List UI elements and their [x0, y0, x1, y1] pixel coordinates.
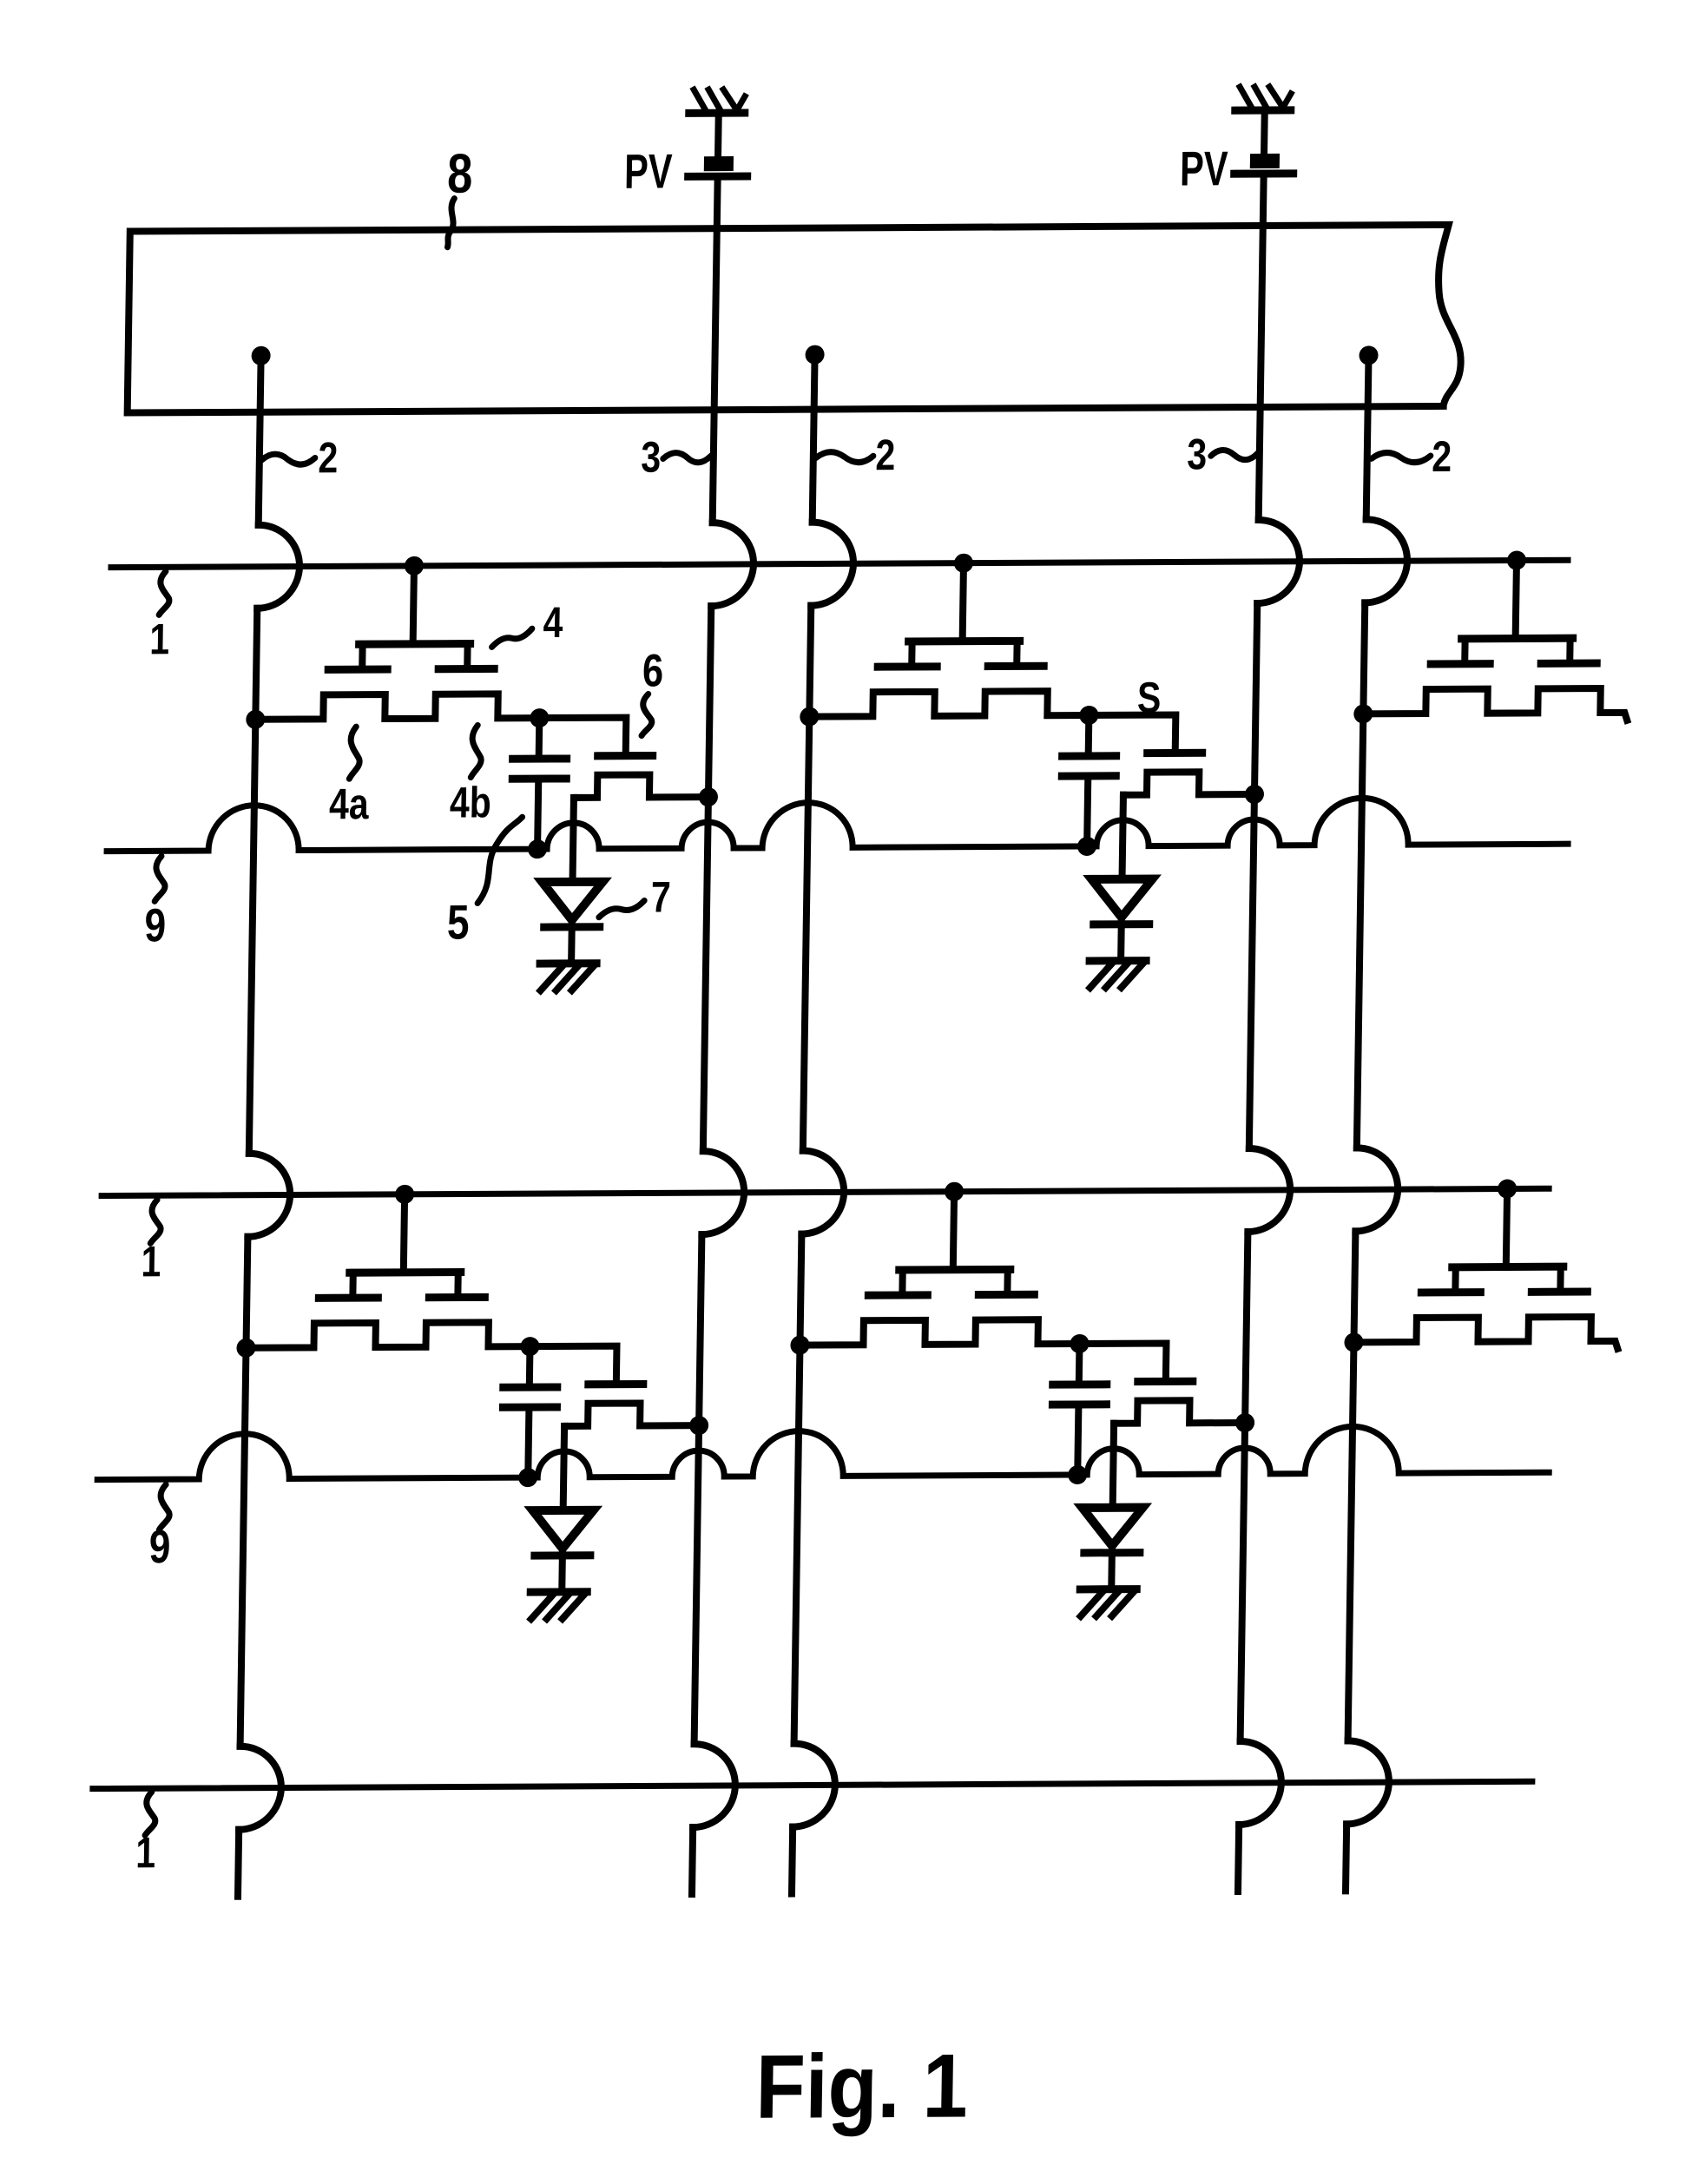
node: column 2 (right) tap inside bus 8 [1359, 345, 1378, 365]
svg-text:3: 3 [1187, 430, 1208, 478]
pixel cell D (row2,col2): wire: gate tap of transistor 4 [953, 1192, 954, 1268]
pixel cell C (row2,col1): node: capacitor 5 on row 9 [518, 1468, 537, 1487]
pixel cell C (row2,col1): wire: capacitor 5 to row 9 [528, 1407, 529, 1477]
crossover hop: column 2 (middle) over row 1 (first) [811, 522, 853, 605]
pixel cell B (row1,col2): wire: gate lead of transistor 6 [1089, 714, 1176, 750]
label 2 (right column) with squiggle [1371, 432, 1452, 481]
pixel cell edge (row1,right): wire: gate tap of transistor 4 [1516, 561, 1517, 637]
pixel cell C (row2,col1): photodiode 7 triangle [532, 1510, 594, 1549]
pixel cell D (row2,col2): node: transistor 6 on column 3 [1235, 1413, 1254, 1432]
pixel cell C (row2,col1): ground (below photodiode) [530, 1592, 587, 1619]
row line 9 (second, with crossover hops) [97, 1425, 1550, 1479]
row line 1 (second gate line) [102, 1188, 1549, 1195]
pixel cell A (row1,col1): photodiode 7 triangle [542, 882, 603, 920]
pixel cell D (row2,col2): capacitor 5 plates [1052, 1385, 1106, 1404]
pixel cell A (row1,col1): wire: gate tap of transistor 4 [413, 566, 414, 642]
pixel cell D (row2,col2): node: channel on column 2 [790, 1336, 809, 1355]
pixel cell edge (row1,right): transistor 4a/4b channel (staircase) [1363, 688, 1628, 722]
pixel cell C (row2,col1): capacitor 5 plates [503, 1387, 556, 1407]
pixel cell edge (row2,right): transistor 4b gate bar [1531, 1288, 1587, 1296]
crossover hop: column 3 (right) over row 1 (second) [1248, 1148, 1290, 1232]
pixel cell B (row1,col2): transistor 6 channel [1123, 772, 1254, 795]
svg-text:6: 6 [642, 645, 664, 696]
pixel cell C (row2,col1): photodiode 7 cathode bar [535, 1551, 590, 1559]
pixel cell edge (row1,right): node: channel on column 2 (right) [1353, 704, 1373, 723]
label 1 (second row) with squiggle [141, 1200, 161, 1286]
pixel cell A (row1,col1): node: channel on column 2 [246, 710, 265, 729]
svg-text:PV: PV [1180, 141, 1228, 196]
pixel cell C (row2,col1): wire: gate lead of transistor 6 [530, 1346, 617, 1382]
pixel cell B (row1,col2): capacitor 5 plates [1062, 756, 1116, 776]
crossover hop: column 2 (left) over row 1 (third) [239, 1747, 281, 1830]
pixel cell B (row1,col2): transistor 4a/4b channel (staircase) [805, 691, 1089, 717]
pixel cell C (row2,col1): node: channel on column 2 [236, 1339, 255, 1358]
pixel cell C (row2,col1): transistor 4a gate bar [319, 1294, 378, 1302]
column line 2 (middle video line) [792, 355, 815, 1894]
pixel cell A (row1,col1): wire: junction to capacitor 5 [536, 718, 543, 759]
pixel cell D (row2,col2): transistor 4 gate plate end ticks [902, 1269, 1007, 1295]
pixel cell D (row2,col2): transistor 4a gate bar [868, 1291, 927, 1299]
pixel cell C (row2,col1): transistor 4 top gate plate [350, 1268, 461, 1277]
pixel cell C (row2,col1): node: gate of transistor 4 on row 1 [395, 1185, 414, 1204]
crossover hop: column 3 (left) over row 1 (second) [701, 1151, 744, 1234]
node: column 2 (middle) tap inside bus 8 [805, 345, 824, 365]
svg-text:2: 2 [1432, 432, 1452, 481]
label 3 (right column) with squiggle [1187, 430, 1258, 478]
label 9 (first row) with squiggle [144, 856, 167, 951]
crossover hop: column 2 (left) over row 1 (second) [247, 1154, 290, 1237]
crossover hop: column 2 (right) over row 1 (second) [1355, 1148, 1398, 1231]
pixel cell B (row1,col2): transistor 4a gate bar [878, 662, 937, 670]
pixel cell A (row1,col1): node: channel / storage capacitor junction [530, 708, 549, 727]
crossover hop: column 3 (right) over row 1 (first) [1257, 520, 1300, 603]
pixel cell A (row1,col1): transistor 4 top gate plate [359, 640, 471, 648]
pixel cell D (row2,col2): node: capacitor 5 on row 9 [1068, 1465, 1087, 1484]
pixel cell A (row1,col1): wire: gate lead of transistor 6 [539, 718, 627, 753]
bus bar 8 (readout line rectangle) [128, 225, 1463, 413]
label 4a with squiggle [329, 727, 371, 828]
pixel cell C (row2,col1): transistor 6 channel [564, 1403, 698, 1426]
label 2 (middle column) with squiggle [815, 431, 895, 479]
label 3 (left column) with squiggle [641, 432, 711, 481]
svg-text:Fig. 1: Fig. 1 [755, 2035, 969, 2137]
pixel cell B (row1,col2): node: channel on column 2 [800, 707, 819, 727]
pixel cell B (row1,col2): transistor 4 gate plate end ticks [912, 641, 1017, 667]
column line 3 (left, from PV) [692, 176, 718, 1894]
row line 9 (first, with crossover hops) [107, 797, 1569, 851]
pixel cell A (row1,col1): transistor 4 gate plate end ticks [362, 644, 467, 670]
pixel cell D (row2,col2): ground (below photodiode) [1080, 1589, 1136, 1616]
pixel cell C (row2,col1): wire: gate tap of transistor 4 [404, 1194, 405, 1271]
label 8 with leader squiggle [446, 143, 473, 247]
pixel cell D (row2,col2): wire: capacitor 5 to row 9 [1077, 1404, 1078, 1475]
pixel cell D (row2,col2): node: gate of transistor 4 on row 1 [945, 1182, 964, 1201]
pixel cell B (row1,col2): wire: photodiode 7 to ground [1117, 918, 1125, 961]
pixel cell edge (row2,right): node: gate of transistor 4 on row 1 [1498, 1179, 1517, 1198]
pixel cell B (row1,col2): node: transistor 6 on column 3 [1245, 785, 1264, 804]
pixel cell D (row2,col2): photodiode 7 cathode bar [1084, 1549, 1140, 1556]
row line 1 (first gate line) [111, 560, 1568, 567]
pixel cell edge (row1,right): transistor 4a gate bar [1431, 660, 1490, 668]
pixel cell B (row1,col2): transistor 4b gate bar [988, 662, 1044, 670]
svg-text:1: 1 [149, 615, 170, 663]
pixel cell A (row1,col1): transistor 4b gate bar [438, 665, 494, 673]
pixel cell B (row1,col2): ground (below photodiode) [1090, 961, 1146, 988]
pixel cell C (row2,col1): node: channel / storage capacitor junction [520, 1337, 539, 1356]
pixel cell A (row1,col1): wire: transistor 6 to photodiode 7 [573, 798, 574, 882]
svg-text:S: S [1137, 674, 1162, 722]
pixel cell B (row1,col2): node: gate of transistor 4 on row 1 [954, 554, 973, 573]
pixel cell edge (row1,right): transistor 4b gate bar [1541, 660, 1597, 668]
crossover hop: column 2 (middle) over row 1 (second) [801, 1150, 844, 1233]
pixel cell A (row1,col1): node: capacitor 5 on row 9 [528, 839, 547, 858]
pixel cell D (row2,col2): node: channel / storage capacitor junction [1070, 1334, 1089, 1353]
svg-text:8: 8 [447, 143, 473, 205]
pixel cell A (row1,col1): node: transistor 6 on column 3 [699, 787, 718, 806]
pixel cell B (row1,col2): node: capacitor 5 on row 9 [1077, 837, 1096, 856]
pixel cell D (row2,col2): wire: photodiode 7 to ground [1108, 1546, 1116, 1589]
pixel cell D (row2,col2): transistor 6 channel [1114, 1400, 1245, 1424]
svg-text:9: 9 [144, 899, 167, 951]
crossover hop: column 3 (right) over row 1 (third) [1239, 1741, 1281, 1825]
pixel cell D (row2,col2): wire: junction to capacitor 5 [1076, 1344, 1083, 1385]
pixel cell C (row2,col1): transistor 4b gate bar [429, 1293, 484, 1301]
crossover hop: column 2 (right) over row 1 (first) [1365, 519, 1407, 602]
pixel cell D (row2,col2): photodiode 7 triangle [1082, 1508, 1143, 1546]
pixel cell A (row1,col1): ground (below photodiode) [540, 964, 596, 990]
crossover hop: column 2 (right) over row 1 (third) [1346, 1740, 1389, 1824]
label 1 (third row) with squiggle [135, 1792, 156, 1877]
pixel cell B (row1,col2): transistor 4 top gate plate [909, 637, 1020, 646]
pixel cell edge (row2,right): node: channel on column 2 (right) [1344, 1332, 1363, 1352]
pixel cell C (row2,col1): transistor 4a/4b channel (staircase) [246, 1322, 530, 1348]
column line 3 (right, from PV) [1238, 174, 1264, 1891]
pixel cell A (row1,col1): wire: photodiode 7 to ground [568, 920, 576, 964]
label 9 (second row) with squiggle [148, 1484, 171, 1573]
column line 2 (left video line) [238, 356, 261, 1897]
pixel cell D (row2,col2): wire: gate lead of transistor 6 [1079, 1343, 1167, 1378]
label 5 with leader [447, 817, 523, 949]
pixel cell A (row1,col1): capacitor 5 plates [512, 759, 566, 779]
svg-text:4a: 4a [329, 780, 370, 828]
svg-text:4b: 4b [450, 779, 492, 827]
pixel cell edge (row2,right): transistor 4a/4b channel (staircase) [1353, 1317, 1618, 1351]
crossover hop: column 2 (middle) over row 1 (third) [793, 1743, 835, 1826]
pixel cell C (row2,col1): transistor 6 gate bar [589, 1380, 643, 1388]
svg-text:PV: PV [624, 144, 673, 199]
pixel cell D (row2,col2): transistor 4b gate bar [978, 1291, 1034, 1299]
pixel cell A (row1,col1): transistor 4a/4b channel (staircase) [255, 694, 539, 720]
svg-text:5: 5 [447, 895, 470, 949]
pixel cell C (row2,col1): node: transistor 6 on column 3 [689, 1416, 708, 1435]
pixel cell A (row1,col1): photodiode 7 cathode bar [544, 923, 600, 931]
label 4b with squiggle [450, 725, 493, 826]
pixel cell A (row1,col1): node: gate of transistor 4 on row 1 [405, 556, 424, 576]
label 2 (left column) with squiggle [261, 433, 338, 482]
pixel cell A (row1,col1): transistor 6 channel [574, 774, 708, 798]
ground (top, left) [689, 89, 745, 113]
pixel cell D (row2,col2): wire: transistor 6 to photodiode 7 [1113, 1424, 1114, 1508]
pixel cell edge (row1,right): transistor 4 gate plate end ticks [1465, 638, 1570, 664]
pixel cell C (row2,col1): wire: photodiode 7 to ground [558, 1549, 566, 1592]
pixel cell B (row1,col2): photodiode 7 triangle [1091, 879, 1153, 918]
wire: ground to capacitor PV (left) [714, 113, 722, 158]
node: column 2 (left) tap inside bus 8 [251, 346, 270, 365]
svg-text:2: 2 [318, 433, 339, 482]
pixel cell edge (row2,right): transistor 4 gate plate end ticks [1455, 1266, 1560, 1293]
pixel cell B (row1,col2): node: channel / storage capacitor junction [1079, 706, 1098, 725]
column line 2 (right video line) [1346, 355, 1369, 1891]
pixel cell D (row2,col2): transistor 6 gate bar [1138, 1378, 1193, 1385]
label 1 (first row) with squiggle [149, 571, 170, 663]
crossover hop: column 3 (left) over row 1 (third) [693, 1744, 735, 1827]
crossover hop: column 2 (left) over row 1 (first) [257, 525, 300, 608]
pixel cell A (row1,col1): transistor 6 gate bar [598, 752, 653, 760]
svg-text:2: 2 [875, 431, 896, 479]
pixel cell B (row1,col2): wire: capacitor 5 to row 9 [1087, 776, 1088, 846]
pixel cell edge (row1,right): transistor 4 top gate plate [1462, 635, 1573, 643]
pixel cell A (row1,col1): wire: capacitor 5 to row 9 [537, 779, 538, 849]
pixel cell B (row1,col2): transistor 6 gate bar [1148, 749, 1202, 757]
label 7 with leader [599, 873, 671, 922]
svg-text:7: 7 [650, 873, 671, 922]
pixel cell C (row2,col1): wire: transistor 6 to photodiode 7 [563, 1426, 564, 1510]
capacitor PV (left) [688, 156, 747, 176]
pixel cell B (row1,col2): wire: gate tap of transistor 4 [963, 563, 964, 640]
capacitor PV (right) [1234, 154, 1294, 174]
label 4 with leader [492, 598, 564, 647]
pixel cell B (row1,col2): photodiode 7 cathode bar [1094, 920, 1149, 928]
pixel cell C (row2,col1): transistor 4 gate plate end ticks [352, 1273, 458, 1299]
svg-text:4: 4 [543, 598, 563, 647]
pixel cell edge (row2,right): transistor 4a gate bar [1421, 1288, 1480, 1296]
svg-text:3: 3 [641, 433, 662, 482]
pixel cell edge (row2,right): transistor 4 top gate plate [1452, 1263, 1564, 1272]
pixel cell D (row2,col2): transistor 4a/4b channel (staircase) [795, 1319, 1079, 1345]
pixel cell C (row2,col1): wire: junction to capacitor 5 [526, 1346, 534, 1387]
label 6 with squiggle [642, 645, 664, 735]
ground (top, right) [1235, 87, 1291, 110]
pixel cell edge (row1,right): node: gate of transistor 4 on row 1 [1507, 550, 1526, 569]
pixel cell B (row1,col2): wire: junction to capacitor 5 [1085, 715, 1093, 756]
pixel cell D (row2,col2): transistor 4 top gate plate [899, 1266, 1011, 1274]
crossover hop: column 3 (left) over row 1 (first) [711, 523, 754, 606]
pixel cell edge (row2,right): wire: gate tap of transistor 4 [1506, 1189, 1507, 1266]
pixel cell A (row1,col1): transistor 4a gate bar [328, 666, 387, 674]
pixel cell B (row1,col2): wire: transistor 6 to photodiode 7 [1123, 795, 1123, 879]
row line 1 (third gate line) [93, 1781, 1532, 1788]
wire: ground to capacitor PV (right) [1261, 110, 1268, 155]
